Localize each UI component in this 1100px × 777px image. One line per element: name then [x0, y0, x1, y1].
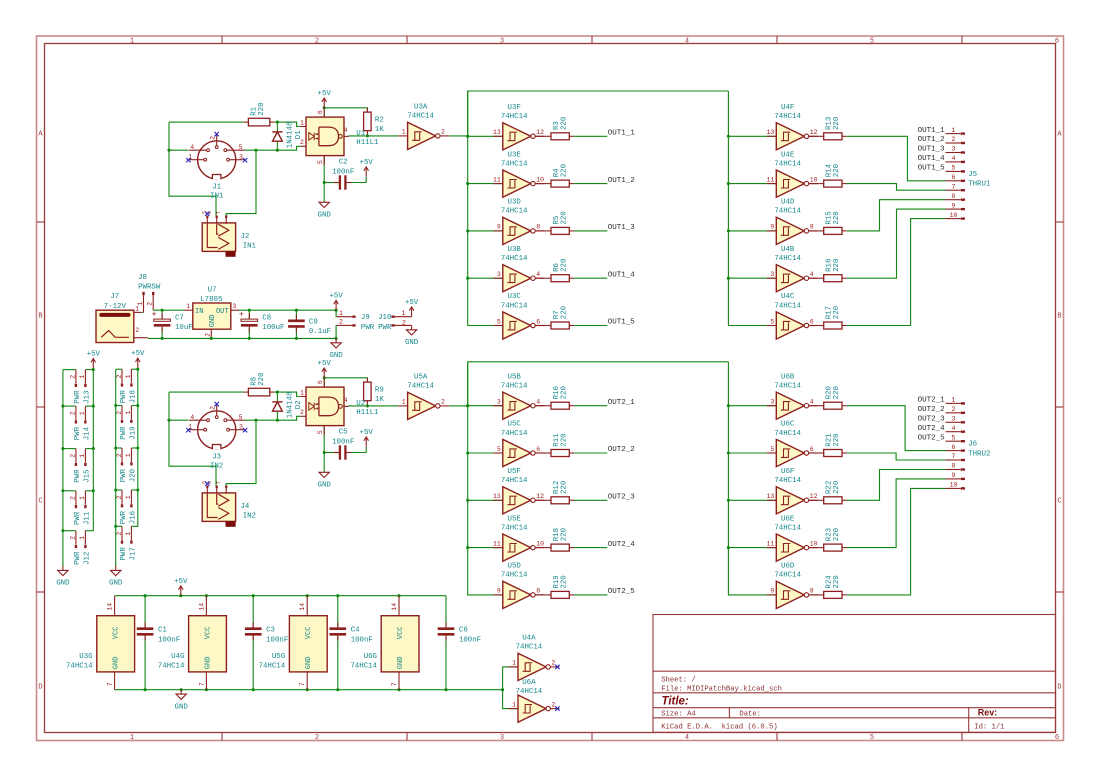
wire	[574, 277, 607, 279]
svg-text:74HC14: 74HC14	[259, 662, 286, 670]
svg-text:U3D: U3D	[508, 199, 522, 207]
svg-text:9: 9	[952, 472, 956, 479]
svg-text:C3: C3	[266, 627, 275, 635]
svg-text:2: 2	[70, 411, 77, 415]
resistor R21	[819, 433, 847, 457]
wire	[169, 121, 244, 123]
wire	[535, 405, 546, 407]
wire	[728, 230, 776, 232]
wire	[345, 447, 366, 453]
junction	[466, 404, 469, 407]
svg-text:8: 8	[536, 224, 540, 231]
junction	[136, 368, 139, 371]
wire	[63, 490, 76, 492]
svg-text:GND: GND	[113, 657, 121, 670]
svg-text:74HC14: 74HC14	[774, 572, 801, 580]
wire	[131, 405, 137, 407]
junction	[61, 489, 64, 492]
svg-text:J3: J3	[212, 454, 221, 462]
svg-text:7: 7	[391, 682, 398, 686]
svg-text:220: 220	[560, 528, 568, 541]
svg-text:10: 10	[950, 212, 958, 219]
svg-text:74HC14: 74HC14	[158, 662, 185, 670]
svg-text:IN1: IN1	[243, 242, 257, 250]
power unit U6G	[350, 596, 419, 690]
resistor R22	[819, 481, 847, 504]
junction	[366, 404, 369, 407]
svg-text:OUT2_5: OUT2_5	[918, 434, 946, 442]
wire	[574, 499, 607, 501]
svg-text:IN2: IN2	[243, 512, 256, 520]
title block	[653, 615, 1056, 733]
svg-text:4: 4	[536, 399, 540, 406]
+5V power symbol	[360, 429, 374, 447]
svg-text:C2: C2	[339, 159, 348, 167]
wire	[116, 525, 122, 527]
junction	[336, 688, 339, 691]
wire	[535, 277, 546, 279]
resistor R12	[546, 481, 574, 504]
svg-text:5: 5	[497, 318, 501, 325]
resistor R13	[819, 117, 847, 140]
svg-text:5: 5	[770, 318, 774, 325]
svg-text:13: 13	[493, 493, 501, 500]
connector J6 THRU2	[946, 397, 991, 489]
svg-text:220: 220	[258, 372, 266, 385]
svg-text:J12: J12	[83, 552, 91, 565]
svg-text:U6E: U6E	[781, 515, 795, 523]
svg-text:OUT1_1: OUT1_1	[608, 130, 636, 138]
svg-text:2: 2	[135, 327, 139, 334]
connector J12	[70, 531, 92, 565]
wire	[169, 122, 216, 215]
svg-text:J15: J15	[83, 469, 91, 482]
wire	[169, 149, 188, 151]
svg-text:8: 8	[810, 224, 814, 231]
svg-text:GND: GND	[329, 352, 343, 360]
wire	[809, 594, 819, 596]
inverter gate U3C	[493, 293, 544, 339]
svg-text:4: 4	[536, 271, 540, 278]
junction	[276, 121, 279, 124]
svg-text:1N4148: 1N4148	[286, 122, 294, 149]
no-connect	[555, 665, 559, 669]
svg-text:11: 11	[766, 540, 774, 547]
svg-text:OUT2_2: OUT2_2	[918, 406, 945, 414]
svg-text:C: C	[38, 498, 42, 506]
barrel jack J7	[96, 293, 148, 342]
optocoupler U2	[300, 378, 379, 435]
wire	[574, 230, 607, 232]
svg-text:5: 5	[770, 446, 774, 453]
svg-text:J2: J2	[241, 233, 250, 241]
connector J5 THRU1	[946, 127, 991, 219]
svg-text:74HC14: 74HC14	[407, 113, 434, 121]
resistor R23	[819, 528, 847, 551]
svg-text:74HC14: 74HC14	[774, 113, 801, 121]
junction	[323, 376, 326, 379]
svg-text:T: T	[216, 481, 222, 484]
wire	[847, 453, 946, 460]
svg-text:B: B	[38, 313, 42, 321]
svg-text:4: 4	[952, 155, 956, 162]
junction	[61, 447, 64, 450]
svg-text:2: 2	[551, 660, 555, 667]
svg-text:4: 4	[685, 38, 689, 46]
svg-text:OUT2_1: OUT2_1	[608, 399, 636, 407]
regulator U7 L7805	[185, 286, 240, 338]
inverter gate U5F	[493, 468, 544, 514]
svg-text:8: 8	[952, 193, 956, 200]
inverter gate U6F	[766, 468, 817, 514]
diode D2	[272, 392, 303, 419]
junction	[161, 309, 164, 312]
capacitor C6	[438, 623, 481, 645]
svg-text:1: 1	[135, 306, 139, 313]
junction	[727, 451, 730, 454]
wire	[809, 499, 819, 501]
wire	[276, 141, 278, 150]
connector J10 PWR	[378, 310, 412, 332]
wire	[728, 183, 776, 185]
wire	[809, 405, 819, 407]
resistor R9	[364, 378, 385, 406]
svg-text:74HC14: 74HC14	[501, 113, 528, 121]
junction	[252, 594, 255, 597]
svg-text:100uF: 100uF	[262, 324, 284, 332]
connector J18	[116, 369, 138, 403]
svg-text:100nF: 100nF	[332, 168, 354, 176]
inverter gate U4C	[767, 293, 818, 339]
svg-text:13: 13	[766, 493, 774, 500]
svg-text:6: 6	[317, 110, 324, 114]
junction	[276, 391, 279, 394]
junction	[61, 529, 64, 532]
junction	[248, 337, 251, 340]
svg-text:U5F: U5F	[508, 468, 521, 476]
svg-text:H11L1: H11L1	[356, 139, 379, 147]
svg-text:GND: GND	[209, 315, 217, 328]
resistor R7	[546, 306, 574, 329]
inverter gate U4F	[766, 104, 817, 150]
svg-text:OUT1_4: OUT1_4	[608, 271, 636, 279]
svg-text:OUT1_4: OUT1_4	[918, 155, 946, 163]
resistor R19	[546, 575, 574, 598]
wire	[468, 91, 503, 326]
wire	[323, 108, 325, 117]
inverter gate U6B	[767, 373, 818, 419]
+5V power symbol	[131, 350, 145, 368]
svg-text:1: 1	[79, 536, 86, 540]
svg-text:2: 2	[952, 406, 956, 413]
wire	[248, 328, 250, 339]
svg-text:220: 220	[560, 386, 568, 399]
wire	[323, 378, 325, 387]
svg-text:U4D: U4D	[781, 199, 795, 207]
inverter gate U4E	[766, 151, 817, 197]
junction	[727, 229, 730, 232]
svg-text:OUT1_2: OUT1_2	[608, 177, 635, 185]
svg-text:OUT2_2: OUT2_2	[608, 446, 635, 454]
wire	[63, 448, 76, 450]
junction	[210, 337, 213, 340]
wire	[728, 499, 776, 501]
wire	[324, 182, 340, 184]
junction	[136, 404, 139, 407]
svg-text:2: 2	[315, 38, 319, 46]
junction	[727, 546, 730, 549]
wire	[535, 547, 546, 549]
svg-text:J17: J17	[129, 547, 137, 560]
svg-text:7-12V: 7-12V	[104, 303, 127, 311]
svg-text:4: 4	[344, 127, 348, 134]
ground	[405, 325, 419, 347]
svg-text:1: 1	[952, 397, 956, 404]
wire	[337, 596, 339, 629]
wire	[809, 230, 819, 232]
svg-text:2: 2	[209, 406, 216, 410]
svg-text:+5V: +5V	[329, 292, 343, 300]
wire	[85, 491, 93, 531]
junction	[114, 525, 117, 528]
svg-text:6: 6	[536, 318, 540, 325]
svg-text:7: 7	[107, 682, 114, 686]
wire	[115, 369, 117, 566]
junction	[180, 688, 183, 691]
svg-text:74HC14: 74HC14	[516, 688, 543, 696]
junction	[276, 419, 279, 422]
svg-text:1: 1	[137, 302, 144, 306]
svg-text:J18: J18	[129, 390, 137, 403]
svg-text:3: 3	[239, 424, 243, 431]
junction	[161, 337, 164, 340]
junction	[248, 309, 251, 312]
wire	[468, 452, 503, 454]
svg-text:12: 12	[810, 129, 818, 136]
svg-text:2: 2	[339, 319, 343, 326]
svg-text:OUT2_4: OUT2_4	[918, 425, 946, 433]
wire	[323, 183, 325, 202]
svg-text:74HC14: 74HC14	[501, 383, 528, 391]
svg-text:2: 2	[116, 374, 123, 378]
svg-text:74HC14: 74HC14	[774, 524, 801, 532]
svg-text:220: 220	[833, 386, 841, 399]
svg-text:7: 7	[299, 682, 306, 686]
wire	[809, 547, 819, 549]
svg-text:2: 2	[70, 375, 77, 379]
junction	[136, 446, 139, 449]
svg-text:U4E: U4E	[781, 151, 795, 159]
wire	[535, 183, 546, 185]
wire	[809, 325, 819, 327]
svg-text:74HC14: 74HC14	[774, 160, 801, 168]
wire	[161, 328, 163, 339]
wire	[728, 547, 776, 549]
wire	[411, 316, 413, 318]
svg-text:U6C: U6C	[781, 421, 795, 429]
wire	[503, 667, 518, 690]
capacitor C8	[239, 310, 285, 333]
svg-text:100nF: 100nF	[459, 636, 481, 644]
svg-text:PWR: PWR	[74, 390, 82, 404]
diode D1	[272, 122, 303, 149]
junction	[144, 594, 147, 597]
ground	[109, 566, 123, 588]
svg-text:74HC14: 74HC14	[501, 208, 528, 216]
svg-text:74HC14: 74HC14	[774, 255, 801, 263]
svg-text:220: 220	[833, 164, 841, 177]
junction	[254, 149, 257, 152]
svg-text:PWR: PWR	[120, 390, 128, 404]
svg-text:PWR: PWR	[74, 551, 82, 565]
svg-text:U6B: U6B	[781, 373, 795, 381]
svg-text:C6: C6	[459, 627, 468, 635]
svg-text:J16: J16	[129, 511, 137, 524]
svg-text:1: 1	[79, 454, 86, 458]
svg-text:7: 7	[952, 453, 956, 460]
wire	[131, 490, 137, 526]
wire	[574, 547, 607, 549]
junction	[323, 181, 326, 184]
svg-text:2: 2	[205, 333, 212, 337]
svg-text:6: 6	[952, 174, 956, 181]
wire	[115, 595, 446, 597]
svg-text:2: 2	[441, 399, 445, 406]
svg-text:3: 3	[952, 416, 956, 423]
svg-text:1N4148: 1N4148	[286, 392, 294, 419]
wire	[85, 405, 93, 407]
inverter gate U6C	[767, 421, 818, 467]
svg-text:9: 9	[770, 224, 774, 231]
junction	[727, 404, 730, 407]
svg-text:100nF: 100nF	[158, 636, 180, 644]
svg-text:9: 9	[952, 202, 956, 209]
inverter gate U4B	[767, 246, 818, 292]
svg-text:C4: C4	[351, 627, 360, 635]
resistor R20	[819, 386, 847, 409]
wire	[161, 310, 163, 320]
svg-text:74HC14: 74HC14	[774, 208, 801, 216]
svg-text:220: 220	[560, 164, 568, 177]
resistor R1	[244, 102, 275, 125]
junction	[466, 135, 469, 138]
svg-text:1: 1	[79, 375, 86, 379]
svg-text:J10: J10	[378, 314, 391, 322]
svg-text:OUT2_3: OUT2_3	[918, 416, 946, 424]
svg-text:T: T	[216, 211, 222, 214]
svg-text:U5G: U5G	[272, 653, 285, 661]
svg-text:10: 10	[536, 176, 544, 183]
svg-text:+5V: +5V	[318, 90, 332, 98]
svg-text:D: D	[38, 684, 42, 692]
junction	[179, 594, 182, 597]
resistor R16	[819, 259, 847, 282]
svg-text:74HC14: 74HC14	[350, 662, 377, 670]
svg-text:J14: J14	[83, 426, 91, 440]
junction	[92, 405, 95, 408]
capacitor C4	[330, 623, 373, 645]
wire	[468, 230, 503, 232]
svg-text:11: 11	[493, 540, 501, 547]
inverter gate U3D	[493, 199, 544, 245]
svg-text:OUT1_3: OUT1_3	[608, 224, 636, 232]
inverter gate U3F	[493, 104, 544, 150]
svg-text:9: 9	[770, 588, 774, 595]
inverter gate U4A	[509, 635, 560, 681]
wire	[275, 392, 301, 396]
wire	[169, 392, 216, 485]
wire	[728, 405, 776, 407]
svg-text:0.1uF: 0.1uF	[309, 328, 331, 336]
junction	[167, 419, 170, 422]
jack connector J2	[202, 211, 257, 257]
junction	[727, 277, 730, 280]
wire	[574, 594, 607, 596]
connector J15	[70, 449, 92, 483]
svg-text:74HC14: 74HC14	[501, 477, 528, 485]
svg-text:3: 3	[770, 399, 774, 406]
inverter gate U5D	[493, 563, 544, 609]
junction	[366, 134, 369, 137]
wire	[809, 452, 819, 454]
svg-text:10: 10	[810, 176, 818, 183]
resistor R8	[244, 372, 275, 395]
wire	[847, 479, 946, 548]
svg-text:1: 1	[339, 310, 343, 317]
svg-text:+5V: +5V	[405, 299, 419, 307]
svg-text:74HC14: 74HC14	[501, 255, 528, 263]
junction	[466, 277, 469, 280]
svg-text:IN1: IN1	[210, 192, 224, 200]
wire	[449, 405, 468, 407]
svg-text:1: 1	[402, 399, 406, 406]
svg-text:74HC14: 74HC14	[501, 524, 528, 532]
svg-text:12: 12	[810, 493, 818, 500]
wire	[337, 634, 339, 689]
+5V power symbol	[405, 299, 419, 317]
ground	[175, 690, 189, 712]
wire	[847, 219, 946, 326]
svg-text:5: 5	[952, 434, 956, 441]
svg-text:OUT2_5: OUT2_5	[608, 588, 636, 596]
wire	[276, 411, 278, 420]
junction	[252, 688, 255, 691]
wire	[468, 183, 503, 185]
svg-text:2: 2	[300, 409, 304, 416]
wire	[335, 325, 338, 338]
svg-text:2: 2	[116, 495, 123, 499]
wire	[345, 177, 366, 183]
svg-text:220: 220	[560, 433, 568, 446]
junction	[295, 337, 298, 340]
wire	[144, 634, 146, 689]
svg-text:OUT1_5: OUT1_5	[608, 319, 636, 327]
junction	[727, 135, 730, 138]
inverter gate U6E	[766, 515, 817, 561]
svg-text:OUT2_1: OUT2_1	[918, 397, 946, 405]
svg-text:1: 1	[402, 129, 406, 136]
svg-text:OUT2_3: OUT2_3	[608, 494, 636, 502]
wire	[503, 690, 518, 709]
svg-text:U4A: U4A	[522, 635, 536, 643]
svg-text:1: 1	[300, 389, 304, 396]
junction	[276, 149, 279, 152]
svg-text:10: 10	[810, 540, 818, 547]
svg-text:C: C	[1057, 498, 1061, 506]
svg-text:220: 220	[560, 575, 568, 588]
ground	[329, 338, 343, 360]
wire	[847, 184, 946, 191]
